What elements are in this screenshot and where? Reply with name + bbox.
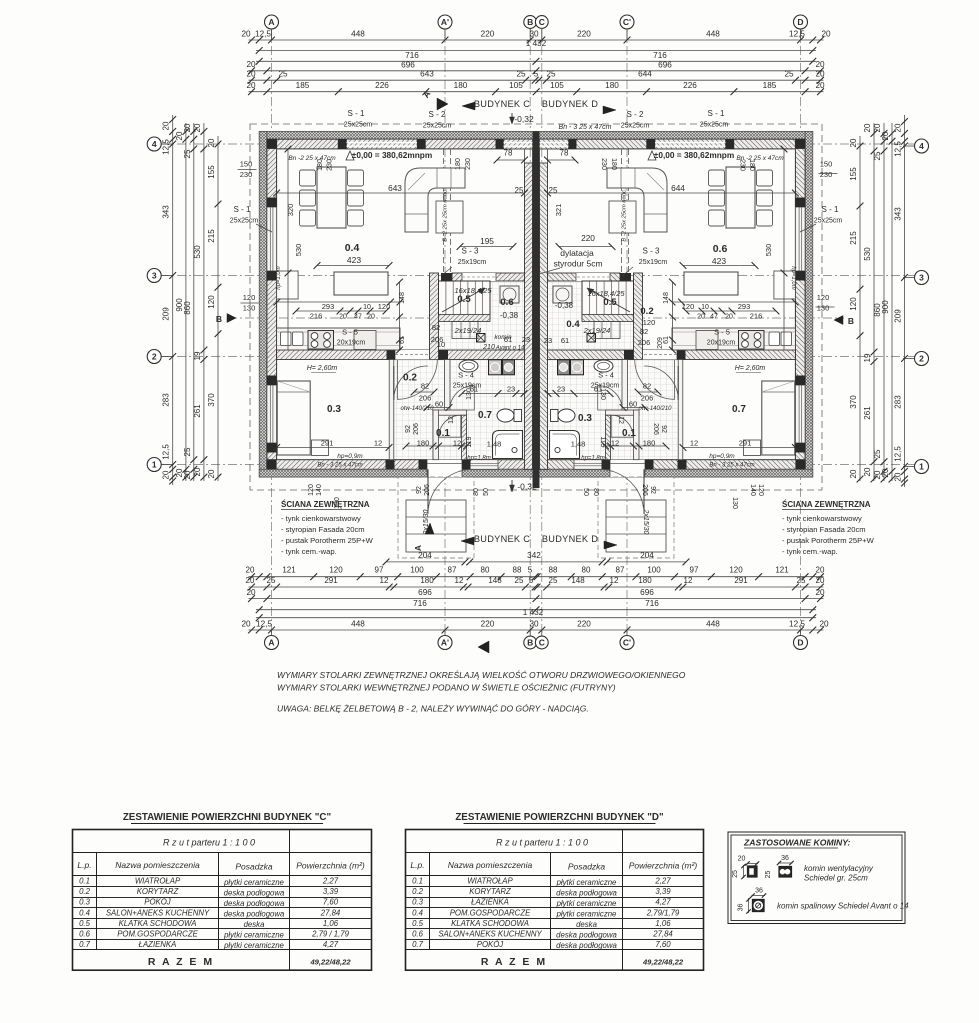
svg-text:25: 25 [732,870,739,878]
flue komin block [477,334,486,343]
svg-text:148: 148 [571,576,585,585]
svg-text:±0,00 = 380,62mnpm: ±0,00 = 380,62mnpm [352,150,432,160]
svg-text:87: 87 [616,566,625,575]
svg-text:140: 140 [749,484,756,496]
interior wall W7 vertical at stair zone [634,273,643,360]
svg-text:78: 78 [504,149,513,158]
svg-text:23: 23 [507,385,515,394]
svg-text:12,5: 12,5 [894,446,903,462]
block left of entry door [645,460,654,470]
svg-text:120: 120 [308,484,315,496]
svg-text:L.p.: L.p. [410,860,424,870]
top dimension row 5: 25/643/25 5 25/643/25 [249,79,824,81]
window sill block upper left window [267,198,277,208]
RIGHT HALF geometry mirrored (Budynek D) [536,131,813,558]
left dim column 3: 25/860/25 [193,123,195,481]
tiled floor corridor/bath/vestibule right [547,360,678,460]
right dim column: 25/860/25 [883,123,885,481]
svg-text:- styropian Fasada 20cm: - styropian Fasada 20cm [281,525,365,534]
svg-text:5: 5 [529,576,534,585]
svg-text:4: 4 [152,139,157,149]
kitchen island [684,272,738,295]
door arc bedroom [393,366,395,400]
opening in W5 corridor door [633,350,677,360]
svg-text:180: 180 [638,576,652,585]
kitchen sink double bowl [781,332,792,346]
svg-text:180: 180 [605,81,619,90]
svg-text:S - 1: S - 1 [348,109,365,118]
svg-text:20: 20 [894,472,903,481]
svg-text:20: 20 [894,123,903,132]
svg-text:12,5: 12,5 [256,620,272,629]
interior dims kitchen chain [686,310,776,312]
vertical axis line D [800,29,802,636]
partition bedroom/corridor [389,360,394,460]
svg-text:900: 900 [881,300,890,314]
window opening top wall living room [347,139,418,149]
svg-text:82: 82 [640,327,648,336]
komin symbol 3 spalinowy [753,900,765,912]
svg-text:12,5: 12,5 [894,141,903,157]
stair flight [582,281,634,318]
bathroom partition left of 0.7 [445,360,451,411]
interior vertical dim 320/530 living [783,149,785,350]
svg-text:25: 25 [873,151,882,160]
svg-text:Schiedel gr. 25cm: Schiedel gr. 25cm [804,874,868,883]
svg-text:0.5: 0.5 [79,919,91,928]
svg-text:20: 20 [697,314,705,321]
svg-text:S - 4: S - 4 [458,371,474,380]
interior dims kitchen chain [296,310,386,312]
junction block W5 right of corridor opening [624,350,633,360]
svg-text:36: 36 [781,855,789,862]
svg-text:5: 5 [534,70,539,79]
svg-text:30: 30 [529,620,539,629]
svg-text:25x25cm: 25x25cm [700,122,729,129]
svg-text:A: A [268,17,274,27]
party wall opening lintel near top [547,150,549,164]
stair direction arrow [587,288,630,312]
svg-text:293: 293 [738,302,751,311]
svg-text:423: 423 [712,256,726,266]
svg-text:220: 220 [481,620,495,629]
svg-text:10: 10 [437,340,445,349]
svg-text:204: 204 [640,551,654,560]
svg-text:180: 180 [317,159,324,171]
section flag A bottom [478,641,489,653]
svg-text:0.5: 0.5 [412,919,424,928]
svg-text:12,5: 12,5 [162,444,171,460]
svg-text:4,27: 4,27 [655,898,671,907]
svg-text:92: 92 [416,486,423,494]
svg-text:2,27: 2,27 [322,877,339,886]
right dim column: 530/19/261 [873,123,875,481]
svg-text:0.7: 0.7 [478,410,492,421]
svg-text:148: 148 [399,292,406,304]
svg-text:148: 148 [663,292,670,304]
svg-text:80: 80 [481,566,490,575]
porch steps 2x15/30 [606,500,666,552]
interior dim 60 [427,407,449,409]
svg-text:płytki ceramiczne: płytki ceramiczne [223,878,284,887]
svg-text:23: 23 [557,385,565,394]
svg-text:12: 12 [611,439,619,448]
opening in W6 with S-3 lintel [462,273,496,281]
svg-text:30: 30 [529,30,539,39]
interior vertical dim 148/61 at corridor [672,282,674,350]
svg-text:215: 215 [849,231,858,245]
svg-text:POKÓJ: POKÓJ [477,940,504,949]
svg-text:82: 82 [432,323,440,332]
svg-text:220: 220 [581,233,595,243]
svg-text:20: 20 [246,60,256,69]
svg-text:-0,32: -0,32 [514,114,534,124]
left dim column 5: 155/215/120/370 [217,136,219,481]
svg-text:204: 204 [418,551,432,560]
lintel block left of living window [726,139,735,149]
interior dim 195 [559,246,612,248]
kitchen island [334,272,388,295]
svg-text:C: C [539,17,545,27]
svg-text:206: 206 [419,394,432,403]
svg-text:20: 20 [725,314,733,321]
interior wall W5 between living zone and rooms [548,350,796,360]
svg-text:B: B [848,316,854,326]
wall top exterior insulation band [259,131,536,139]
right grid bubble 1 [915,460,929,474]
svg-text:25: 25 [546,70,556,79]
svg-text:180: 180 [420,576,434,585]
svg-text:R A Z E M: R A Z E M [481,956,547,968]
svg-text:R z u t parteru 1 : 1 0 0: R z u t parteru 1 : 1 0 0 [496,838,588,848]
vestibule walls 0.1 [433,410,467,415]
corner block top left [267,139,277,149]
bottom dimension row B fine chain [249,576,824,578]
interior dim 60 [623,407,645,409]
svg-text:WIATROŁAP: WIATROŁAP [135,877,181,886]
komin symbol 2 vent double [779,867,792,878]
svg-text:deska: deska [244,920,265,929]
interior dim 82/206 corridor door [638,391,658,393]
svg-text:12: 12 [684,576,693,585]
svg-text:530: 530 [294,244,303,257]
party wall masonry (unit side) [540,163,548,469]
svg-text:hp=1,0m: hp=1,0m [276,266,282,290]
porch dashed outline [598,477,674,558]
vestibule walls 0.1 [605,410,639,415]
stair direction arrow [442,288,485,312]
svg-text:0.6: 0.6 [412,930,424,939]
svg-text:206: 206 [641,484,648,496]
svg-text:120: 120 [329,566,343,575]
svg-text:87: 87 [448,566,457,575]
svg-text:82: 82 [643,382,651,391]
junction block W5 left of corridor opening [387,350,396,360]
window opening top wall near centre [540,139,569,149]
svg-text:216: 216 [750,312,763,321]
svg-text:1,06: 1,06 [323,919,339,928]
svg-text:POM.GOSPODARCZE: POM.GOSPODARCZE [117,930,198,939]
grid bubble A bottom [265,636,279,650]
svg-text:C': C' [623,17,631,27]
svg-text:321: 321 [554,204,563,217]
svg-text:226: 226 [683,81,697,90]
svg-text:hp=1,8m: hp=1,8m [581,456,605,462]
interior dim 180/12 vestibule [606,445,667,447]
svg-text:10: 10 [701,304,709,311]
door arc bathroom [450,386,475,411]
svg-text:KORYTARZ: KORYTARZ [137,887,179,896]
washbasin [594,360,613,372]
svg-text:płytki ceramiczne: płytki ceramiczne [556,899,617,908]
window block bedroom window bottom [267,443,277,453]
window sill block lower left window [267,271,277,281]
svg-text:220: 220 [481,30,495,39]
wall bottom exterior insulation band [259,469,536,477]
dining chairs right column [709,170,725,186]
svg-text:20: 20 [367,314,375,321]
kitchen stove 4 burners [739,331,765,350]
svg-text:20: 20 [873,123,882,132]
svg-text:4: 4 [919,141,924,151]
wall left exterior masonry band [795,139,805,469]
svg-text:- styropian Fasada 20cm: - styropian Fasada 20cm [782,525,866,534]
svg-text:12,5: 12,5 [162,139,171,155]
svg-text:ZASTOSOWANE KOMINY:: ZASTOSOWANE KOMINY: [743,838,850,848]
svg-text:dylatacja: dylatacja [560,248,594,258]
corner block top left [795,139,805,149]
svg-text:343: 343 [162,205,171,219]
svg-text:płytki ceramiczne: płytki ceramiczne [223,931,284,940]
svg-text:Bn - 3 25 x 47cm: Bn - 3 25 x 47cm [709,463,754,469]
fridge or cabinet block at counter end [696,331,718,350]
left grid bubble 3 [147,269,161,283]
svg-text:deska podłogowa: deska podłogowa [556,888,617,897]
svg-text:121: 121 [775,566,789,575]
bathroom window bottom wall hp=1.8 [574,460,602,470]
svg-text:ŁAZIENKA: ŁAZIENKA [471,898,509,907]
svg-text:Bn - 3 25 x 47cm: Bn - 3 25 x 47cm [559,124,612,131]
svg-text:20: 20 [849,469,858,478]
door arc corridor-living [398,359,438,361]
cabinet left wall below window [774,271,796,299]
partition bedroom/corridor [678,360,683,460]
svg-text:20: 20 [183,123,192,132]
bottom dimension row A: 204/342/204 [386,561,465,563]
svg-text:BUDYNEK C: BUDYNEK C [474,534,530,544]
svg-text:hp=1,8m: hp=1,8m [467,456,491,462]
entry door arc swinging outside [643,469,645,514]
svg-text:448: 448 [351,30,365,39]
wall bottom exterior masonry band [536,460,805,470]
svg-text:185: 185 [296,81,310,90]
svg-text:120: 120 [757,484,764,496]
kitchen counter along wall [672,328,795,350]
roof overhang dashed outline [250,124,822,490]
svg-text:0.4: 0.4 [345,242,360,254]
svg-text:komin wentylacyjny: komin wentylacyjny [804,864,874,873]
svg-text:20: 20 [738,856,746,863]
svg-text:H= 2,60m: H= 2,60m [307,365,338,372]
toilet WC [497,409,514,422]
interior dim 293/120 [672,301,795,303]
svg-text:120: 120 [378,302,391,311]
svg-text:0.4: 0.4 [566,319,580,330]
svg-text:0.5: 0.5 [457,294,471,305]
window sill block lower left window [795,271,805,281]
grid bubble A top [265,15,279,29]
svg-text:370: 370 [849,395,858,409]
svg-text:25: 25 [549,186,558,195]
svg-text:185: 185 [763,81,777,90]
svg-text:0.3: 0.3 [327,404,341,415]
grid bubble C' bottom [620,636,634,650]
svg-text:S - 1: S - 1 [708,109,725,118]
svg-text:hp=1,0m: hp=1,0m [790,266,796,290]
svg-text:25x25cm: 25x25cm [814,218,843,225]
svg-text:hp=0,9m: hp=0,9m [709,453,735,460]
svg-text:155: 155 [207,165,216,179]
svg-text:komin: komin [494,334,512,341]
svg-text:20: 20 [849,138,858,147]
svg-text:0.5: 0.5 [603,297,617,308]
dining chairs left column [300,170,316,186]
svg-text:0.7: 0.7 [732,404,746,415]
cabinet left wall below window [277,271,299,299]
svg-text:20: 20 [207,138,216,147]
right grid bubble 2 [915,352,929,366]
svg-text:S - 4: S - 4 [598,371,614,380]
svg-text:A': A' [441,17,449,27]
junction block W5 left of corridor opening [677,350,686,360]
block right of entry door [462,460,471,470]
nightstand [744,440,761,456]
svg-text:49,22/48,22: 49,22/48,22 [309,958,351,967]
kitchen stove 4 burners [308,331,334,350]
svg-text:KLATKA SCHODOWA: KLATKA SCHODOWA [451,919,529,928]
svg-text:12: 12 [690,439,698,448]
interior dim line bedroom 291 [277,447,389,449]
svg-text:12,5: 12,5 [789,30,805,39]
svg-text:370: 370 [207,393,216,407]
svg-text:0.6: 0.6 [79,930,91,939]
interior dim 643 living width [548,192,796,194]
svg-text:12: 12 [455,576,464,585]
svg-text:1,48: 1,48 [571,440,586,449]
svg-text:206: 206 [641,394,654,403]
LEFT HALF geometry (Budynek C) [259,131,536,558]
svg-text:hp=0,9m: hp=0,9m [337,453,363,460]
svg-text:530: 530 [193,245,202,259]
svg-text:0.4: 0.4 [79,908,91,917]
svg-text:WIATROŁAP: WIATROŁAP [467,877,513,886]
svg-text:UWAGA: BELKĘ ŻELBETOWĄ B - 2,: UWAGA: BELKĘ ŻELBETOWĄ B - 2, NALEŻY WYW… [277,704,589,714]
sofa corner unit [405,168,465,232]
svg-text:644: 644 [671,183,685,193]
svg-text:R A Z E M: R A Z E M [148,956,214,968]
svg-text:A: A [268,638,274,648]
svg-text:180: 180 [643,439,656,448]
svg-text:283: 283 [162,393,171,407]
svg-text:20: 20 [816,566,825,575]
svg-text:20: 20 [193,123,202,132]
dylatacja central dark band [533,131,540,488]
svg-text:S - 1: S - 1 [822,205,839,214]
svg-text:530: 530 [863,247,872,261]
block left of entry door [419,460,428,470]
svg-text:deska podłogowa: deska podłogowa [556,931,617,940]
shower tray [550,431,580,459]
svg-text:206: 206 [652,423,659,435]
svg-text:Nazwa pomieszczenia: Nazwa pomieszczenia [115,860,200,870]
svg-text:1,06: 1,06 [655,919,671,928]
beam B-2 dashed lines in living room [443,149,445,273]
svg-text:130: 130 [466,388,473,400]
grid bubble C top [535,16,548,29]
grid bubble A' top [438,15,452,29]
svg-text:12,5: 12,5 [789,620,805,629]
svg-text:- pustak Porotherm 25P+W: - pustak Porotherm 25P+W [281,536,374,545]
svg-text:49,22/48,22: 49,22/48,22 [642,958,684,967]
svg-text:komin spalinowy Schiedel Avant: komin spalinowy Schiedel Avant o 14 [777,902,909,911]
svg-text:61: 61 [663,336,670,344]
svg-text:deska podłogowa: deska podłogowa [556,941,617,950]
svg-text:220: 220 [577,620,591,629]
svg-text:S - 2: S - 2 [627,110,644,119]
svg-text:291: 291 [734,576,748,585]
svg-text:20x19cm: 20x19cm [707,340,736,347]
svg-text:Posadzka: Posadzka [235,862,273,872]
svg-text:25: 25 [515,186,524,195]
svg-text:180: 180 [417,439,430,448]
vertical axis line C' [626,29,628,636]
toilet WC [558,409,575,422]
svg-text:0.2: 0.2 [640,306,653,317]
svg-text:20: 20 [821,30,831,39]
svg-text:25: 25 [278,70,288,79]
svg-text:płytki ceramiczne: płytki ceramiczne [223,941,284,950]
svg-text:20: 20 [863,467,872,476]
svg-text:S - 1: S - 1 [234,205,251,214]
svg-text:47: 47 [354,314,362,321]
wall top exterior masonry band [267,139,536,149]
svg-text:716: 716 [405,51,419,60]
opening in W5 corridor door [395,350,439,360]
svg-text:97: 97 [690,566,699,575]
svg-text:A': A' [441,638,449,648]
svg-text:209: 209 [162,307,171,321]
svg-text:Powierzchnia (m²): Powierzchnia (m²) [629,861,698,871]
svg-text:3: 3 [152,271,157,281]
svg-text:121: 121 [282,566,296,575]
door arc bedroom [677,366,679,400]
svg-text:C: C [539,638,545,648]
window block bedroom window top [267,376,277,386]
svg-text:0.2: 0.2 [412,887,424,896]
svg-text:25: 25 [873,449,882,458]
svg-text:deska podłogowa: deska podłogowa [224,910,285,919]
junction block W5 right of corridor opening [439,350,448,360]
svg-text:100: 100 [647,566,661,575]
vertical axis line B [529,29,531,636]
porch dashed outline [398,477,474,558]
svg-text:20: 20 [246,566,255,575]
svg-text:25: 25 [549,576,558,585]
svg-text:20: 20 [881,131,890,140]
grid bubble C' top [620,15,634,29]
svg-text:716: 716 [645,599,659,608]
svg-text:716: 716 [413,599,427,608]
